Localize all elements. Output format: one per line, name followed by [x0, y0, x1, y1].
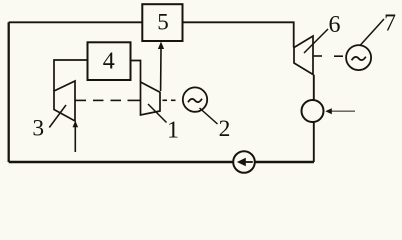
arrow into cooler junction [325, 108, 355, 114]
wire: regenerator 4 to turbine 1 [131, 61, 141, 83]
svg-text:3: 3 [32, 116, 44, 142]
svg-text:4: 4 [103, 49, 115, 75]
svg-text:6: 6 [329, 12, 341, 38]
cooler junction circle [302, 100, 324, 122]
leader line 2 [200, 108, 218, 124]
shaft dashed: turbine 1 to generator 2 [163, 99, 176, 101]
wire: regenerator 4 to compressor 3 [54, 60, 88, 91]
svg-text:2: 2 [219, 116, 231, 142]
shaft dashed: turbine 6 to generator 7 [314, 55, 344, 57]
svg-text:1: 1 [167, 118, 179, 144]
box: heater 5 [142, 4, 182, 41]
turbine 6 [294, 36, 313, 75]
svg-text:5: 5 [157, 10, 169, 35]
wire arrow: turbine 1 to heater 5 [158, 42, 164, 92]
compressor 3 [54, 81, 75, 121]
wire right riser [313, 75, 315, 162]
wire left riser [8, 22, 10, 162]
leader line 3 [49, 105, 66, 128]
turbine 1 [141, 82, 161, 115]
shaft dashed: compressor 3 to turbine 1 [76, 99, 141, 101]
leader line 7 [360, 19, 384, 46]
arrow inside pump circle [237, 158, 253, 166]
wire top-right: heater 5 to turbine 6 [183, 22, 294, 47]
leader line 1 [148, 104, 167, 123]
wire bottom return [9, 161, 314, 164]
wire top-left: heater 5 to left riser [9, 21, 143, 23]
pump circle on bottom return [233, 151, 255, 173]
svg-text:7: 7 [384, 11, 396, 37]
generator 2 [183, 87, 207, 111]
box: regenerator 4 [88, 42, 131, 80]
wire arrow: inlet into compressor 3 [73, 121, 79, 152]
leader line 6 [304, 29, 328, 53]
generator 7 [346, 45, 371, 70]
